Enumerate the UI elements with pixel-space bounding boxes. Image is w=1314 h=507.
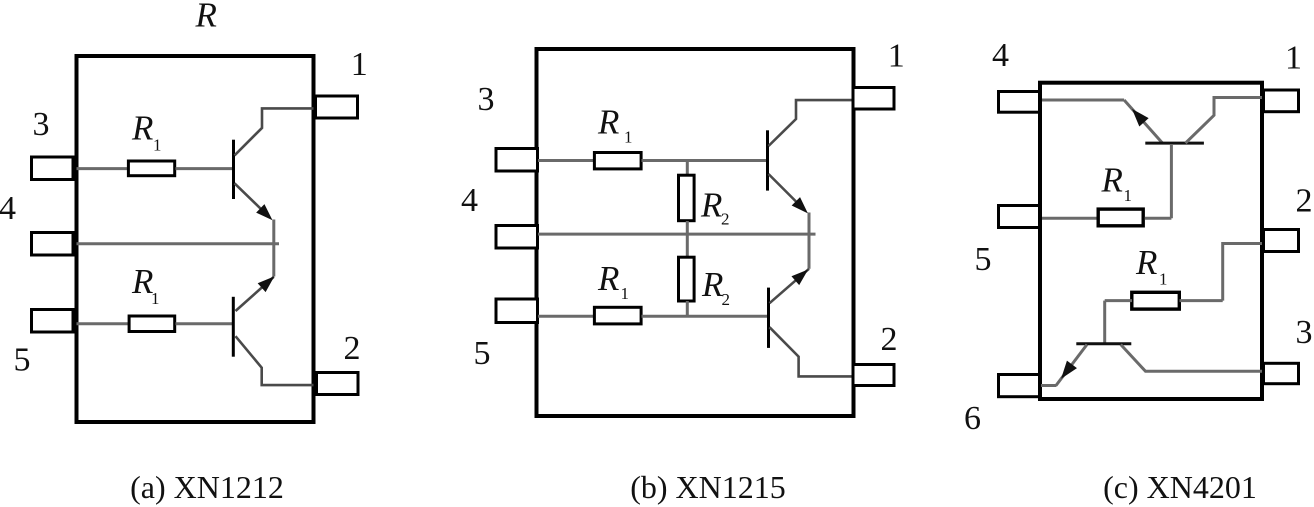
- resistor R1 lower (c): [1132, 292, 1180, 309]
- wire pin3 to R1: [77, 167, 129, 170]
- svg-text:R: R: [597, 259, 619, 298]
- Q2 emitter lead (b): [770, 269, 810, 303]
- svg-text:R: R: [195, 0, 217, 35]
- svg-text:3: 3: [478, 81, 495, 118]
- wire R1 lower to Q2 base: [176, 322, 233, 325]
- wire pin2 branch (c): [1223, 244, 1262, 301]
- pin 2 (a): [317, 373, 359, 395]
- svg-text:1: 1: [351, 46, 368, 83]
- svg-text:(a) XN1212: (a) XN1212: [130, 469, 284, 505]
- svg-text:1: 1: [1124, 186, 1133, 205]
- package body (b): [537, 49, 854, 416]
- Q1 emitter arrow (c): [1133, 110, 1148, 126]
- svg-text:R: R: [597, 103, 619, 142]
- transistor Q1 (b upper): [768, 100, 852, 209]
- Q1 base bar (b): [766, 130, 769, 190]
- wire Q1 emitter to midline node: [272, 220, 275, 277]
- svg-text:4: 4: [461, 182, 478, 219]
- svg-text:1: 1: [1285, 40, 1302, 77]
- wire R1 to Q1 base: [176, 167, 233, 170]
- Q2 collector wire to pin 2: [236, 336, 314, 385]
- transistor Q2 (b lower): [769, 269, 852, 377]
- wire Q1 emitter to midline (b): [808, 213, 811, 269]
- Q2 collector wire to pin 2 (b): [770, 327, 852, 376]
- svg-text:2: 2: [881, 321, 898, 358]
- svg-text:2: 2: [1296, 183, 1313, 220]
- resistor R1 lower (a): [129, 316, 175, 332]
- midline pin4 wire (b): [538, 233, 816, 236]
- svg-text:4: 4: [992, 37, 1009, 74]
- pin 1 (a): [316, 96, 358, 118]
- package body (c): [1040, 83, 1262, 399]
- svg-text:5: 5: [14, 342, 31, 379]
- transistor Q2 (a lower): [233, 277, 313, 385]
- Q1 emitter arrow (b): [793, 198, 807, 212]
- svg-text:R: R: [700, 186, 722, 225]
- pin 2 (c): [1264, 230, 1299, 252]
- svg-text:1: 1: [151, 289, 160, 308]
- pin 2 (b): [853, 365, 894, 386]
- svg-text:6: 6: [964, 400, 981, 437]
- svg-text:(c) XN4201: (c) XN4201: [1103, 469, 1257, 505]
- resistor R2 lower (b): [679, 257, 695, 301]
- wire R2 lower to base2: [686, 301, 689, 316]
- pin 5 (c): [999, 206, 1040, 228]
- pin 4 (c): [999, 92, 1040, 113]
- svg-text:R: R: [701, 265, 723, 304]
- Q1 collector wire to pin 1: [235, 108, 314, 155]
- Q2 base bar: [232, 297, 235, 357]
- Q2 emitter arrow (b): [792, 271, 807, 285]
- svg-text:3: 3: [1296, 314, 1313, 351]
- wire Q2 emitter to pin6 (c): [1041, 384, 1057, 387]
- Q1 base bar: [232, 140, 235, 199]
- svg-text:1: 1: [624, 128, 633, 147]
- wire R1 lower right (c): [1180, 299, 1223, 302]
- svg-text:1: 1: [621, 284, 630, 303]
- Q1 emitter lead: [235, 183, 270, 217]
- midline pin4 wire: [77, 242, 280, 245]
- Q1 collector wire to pin 1 (b): [769, 100, 852, 146]
- svg-text:1: 1: [888, 38, 905, 75]
- pin 1 (b): [853, 88, 894, 110]
- resistor R1 upper (c): [1098, 209, 1143, 226]
- wire pin3 to R1: [538, 159, 594, 162]
- wire R1 to Q1 base: [642, 159, 767, 162]
- resistor R1 upper (a): [128, 161, 174, 176]
- Q1 emitter diagonal (c): [1124, 100, 1162, 143]
- Q2 emitter diagonal (c): [1056, 345, 1087, 386]
- Q2 emitter arrow (c): [1062, 361, 1076, 377]
- wire R1 to base vertical (c): [1145, 217, 1172, 220]
- wire R1 lower to Q2 base: [642, 315, 768, 318]
- wire pin5 to R1 (c): [1042, 217, 1097, 220]
- Q1 emitter arrow: [257, 205, 271, 219]
- pin 3 (c): [1264, 363, 1299, 383]
- svg-text:4: 4: [0, 190, 16, 227]
- wire R2 upper to midline: [686, 221, 689, 256]
- svg-text:R: R: [131, 108, 153, 147]
- pin 3 (a): [32, 157, 74, 180]
- svg-text:R: R: [1135, 243, 1157, 282]
- package body (a): [77, 56, 314, 422]
- resistor R1 lower (b): [594, 307, 641, 324]
- wire R1 lower left to base vertical (c): [1105, 299, 1132, 302]
- Q2 base bar (b): [767, 288, 770, 348]
- svg-text:(b) XN1215: (b) XN1215: [630, 469, 786, 505]
- wire pin4 to Q1 emitter: [1042, 99, 1124, 102]
- transistor Q1 bar (c upper): [1145, 142, 1204, 145]
- svg-text:1: 1: [1159, 269, 1168, 288]
- wire pin5 to R1 lower: [77, 322, 130, 325]
- pin 5 (b): [496, 299, 538, 323]
- svg-text:3: 3: [33, 106, 50, 143]
- pin 5 (a): [32, 310, 74, 333]
- svg-text:2: 2: [722, 290, 731, 309]
- transistor Q1 (a upper): [234, 108, 314, 216]
- Q2 emitter lead: [236, 277, 274, 311]
- transistor Q2 bar (c lower): [1076, 342, 1131, 345]
- pin 6 (c): [999, 375, 1040, 397]
- svg-text:5: 5: [975, 241, 992, 278]
- wire node to R2 upper: [686, 161, 689, 176]
- svg-text:R: R: [1101, 160, 1123, 199]
- Q2 collector (c): [1121, 345, 1262, 372]
- resistor R2 upper (b): [679, 175, 695, 221]
- svg-text:2: 2: [721, 210, 730, 229]
- svg-text:1: 1: [153, 135, 162, 154]
- pin 4 (a): [32, 233, 74, 256]
- Q2 emitter arrow: [259, 277, 274, 291]
- Q1 base vertical (c): [1170, 144, 1173, 218]
- wire pin5 to R1 lower: [538, 315, 594, 318]
- svg-text:5: 5: [474, 335, 491, 372]
- pin 1 (c): [1264, 90, 1299, 112]
- Q2 base vertical (c): [1103, 301, 1106, 343]
- pin 3 (b): [496, 149, 538, 172]
- svg-text:2: 2: [344, 330, 361, 367]
- Q1 emitter lead (b): [769, 174, 805, 210]
- resistor R1 upper (b): [594, 153, 641, 169]
- Q1 collector (c): [1186, 98, 1263, 144]
- pin 4 (b): [496, 226, 538, 249]
